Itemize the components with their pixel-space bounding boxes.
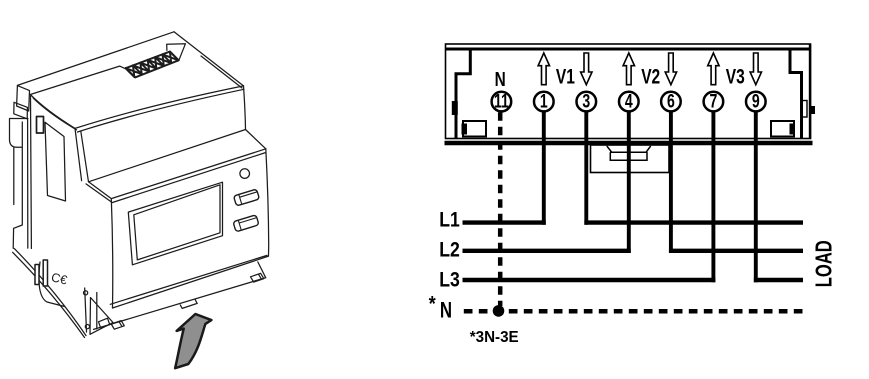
side bottom slant edge: [13, 248, 86, 337]
face plate top bevel double edge: [111, 149, 265, 203]
meter side/front fold double: [75, 128, 89, 181]
terminal 1 circle: [534, 92, 554, 112]
LED indicator circle: [240, 169, 250, 179]
base plate right end cap: [258, 262, 266, 278]
svg-text:N: N: [495, 68, 506, 91]
base clip tab left: [111, 321, 124, 330]
terminal recess right step: [167, 44, 186, 60]
wire: neutral dashed vertical from terminal 11: [498, 112, 503, 306]
wire: terminal 7 vertical: [711, 112, 715, 283]
meter terminal box inner thick top edge: [446, 48, 811, 51]
wire: terminal 4 vertical: [627, 112, 631, 253]
box right edge black mark: [810, 106, 816, 114]
meter terminal box outer thin outline: [446, 44, 811, 139]
box right step small rect: [802, 101, 808, 118]
svg-text:L2: L2: [439, 238, 460, 262]
wire: terminal 3 vertical: [584, 112, 588, 225]
base left rail channel triangle: [90, 293, 113, 335]
box left edge black mark: [452, 101, 458, 115]
button 1: [234, 189, 260, 206]
wire: N dashed horizontal: [464, 309, 803, 314]
button 2: [233, 215, 259, 232]
terminal 6 circle: [661, 92, 681, 112]
corner cap block lower: [14, 102, 28, 119]
DIN clip tab left: [10, 119, 28, 249]
side vent slot 1: [35, 265, 39, 285]
svg-text:LOAD: LOAD: [811, 240, 837, 287]
face plate right edge: [266, 149, 269, 256]
top face left depth edge inner double: [33, 98, 76, 130]
display outer frame: [128, 182, 222, 265]
screw circle upper: [84, 291, 88, 295]
svg-text:V3: V3: [726, 64, 745, 88]
svg-text:1: 1: [540, 90, 548, 112]
corner cap block upper: [17, 86, 30, 111]
junction dot N: [493, 305, 505, 317]
svg-text:V2: V2: [641, 64, 660, 88]
svg-text:V1: V1: [556, 64, 575, 88]
svg-text:11: 11: [494, 90, 509, 112]
svg-text:3: 3: [582, 90, 590, 112]
box inner left step outline: [456, 49, 470, 139]
wire: L1 load horizontal to LOAD: [584, 220, 803, 224]
box bottom-right small rect: [771, 121, 794, 137]
left outline double vertical: [28, 96, 32, 249]
wire: L2 load horizontal to LOAD: [669, 249, 803, 253]
meter upper front face bottom edge: [89, 130, 246, 182]
top face front edge double line: [75, 86, 244, 132]
wire: L2 supply horizontal: [463, 249, 631, 253]
svg-text:9: 9: [752, 90, 760, 112]
arrow down V1 (terminal 3): [581, 53, 592, 85]
arrow down V3 (terminal 9): [750, 53, 761, 85]
base release catch: [180, 300, 197, 309]
base plate bottom edge: [94, 278, 266, 330]
svg-text:*: *: [429, 292, 436, 316]
box bottom-left small rect: [463, 121, 486, 137]
box bottom-right rect black bar: [790, 124, 796, 135]
svg-text:7: 7: [709, 90, 717, 112]
side vent small rect: [37, 117, 44, 134]
svg-text:N: N: [440, 298, 452, 323]
wire: terminal 6 vertical: [669, 112, 673, 253]
rail channel clip rect: [99, 318, 110, 328]
shoulder step right: [246, 130, 266, 149]
screw circle lower: [85, 325, 89, 329]
arrow up V1 (terminal 1): [538, 53, 549, 85]
box right edge thick overlay: [809, 44, 811, 139]
wire: terminal 1 vertical: [542, 112, 546, 225]
meter top-left silhouette edge: [17, 32, 174, 86]
terminal 4 circle: [619, 92, 639, 112]
svg-text:L1: L1: [439, 208, 460, 232]
meter upper body right edge: [244, 86, 246, 130]
wire: terminal 9 vertical: [754, 112, 758, 283]
terminal strip hatched block: [126, 52, 179, 78]
side vent slot 2: [43, 260, 47, 286]
terminal 3 circle: [577, 92, 597, 112]
side label rectangle: [45, 122, 66, 201]
terminal 7 circle: [704, 92, 724, 112]
base clip tab right: [251, 273, 264, 282]
gray curved arrow: [175, 314, 211, 368]
arrow up V3 (terminal 7): [708, 53, 719, 85]
plate lower left edge with screws: [85, 288, 87, 332]
svg-text:*3N-3E: *3N-3E: [470, 328, 519, 345]
terminal 11 circle: [492, 92, 512, 112]
display inner screen: [134, 185, 220, 260]
arrow down V2 (terminal 6): [665, 53, 676, 85]
ledge left edge double: [86, 182, 112, 203]
wire: L3 load horizontal to LOAD: [754, 278, 803, 282]
box inner right step outline: [790, 49, 802, 139]
meter top-left inner edge with elbow to strip: [30, 66, 125, 94]
box bottom-left rect black bar: [462, 124, 468, 135]
arrow up V2 (terminal 4): [623, 53, 634, 85]
clip lever curve: [39, 262, 65, 307]
face plate left edge: [111, 199, 112, 308]
top face left depth edge: [30, 95, 75, 129]
svg-text:6: 6: [667, 90, 675, 112]
face plate bottom bevel double edge: [110, 255, 268, 308]
wire: L1 supply horizontal: [463, 220, 546, 224]
svg-text:4: 4: [625, 90, 633, 112]
DIN clip tongue trapezoid: [607, 146, 651, 160]
wire: L3 supply horizontal: [463, 278, 716, 282]
meter terminal box inner thick bottom edge: [445, 141, 813, 145]
terminal 9 circle: [746, 92, 766, 112]
DIN clip plate below box: [591, 145, 670, 173]
svg-text:L3: L3: [439, 268, 460, 292]
meter top back-right edge: [174, 32, 244, 88]
